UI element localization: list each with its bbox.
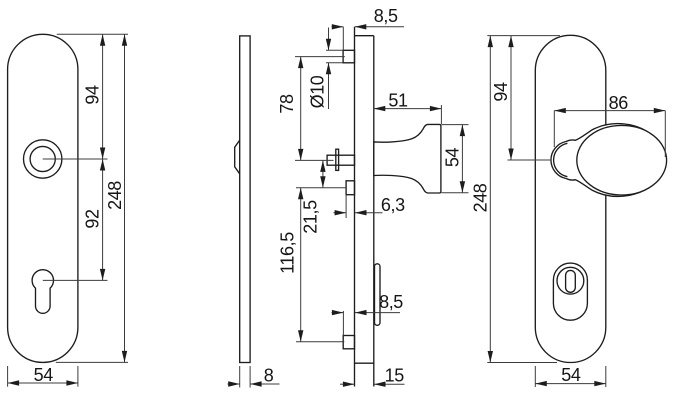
view4 dimension 248 [489, 36, 491, 363]
view4 knob neck inner arc [554, 143, 568, 176]
view3 dimension 6,3 [345, 195, 347, 218]
view3 extension line fixing element center [296, 187, 346, 189]
view3 dimension 116,5 [300, 188, 302, 342]
view1 handle hole outer ring [24, 140, 62, 178]
view1 extension line keyhole center [43, 279, 108, 281]
view3 extension line spindle center [295, 159, 334, 161]
view4 plate outline [535, 35, 606, 362]
view3 cylinder fixing element [346, 181, 354, 195]
view4 extension line top [487, 35, 560, 37]
view3 plate front line (extended for dims) [373, 36, 375, 387]
svg-text:54: 54 [443, 148, 463, 168]
svg-text:8,5: 8,5 [374, 6, 398, 26]
svg-text:86: 86 [609, 93, 629, 113]
view4 knob outer silhouette [551, 124, 665, 197]
svg-text:116,5: 116,5 [277, 232, 297, 274]
svg-text:Ø10: Ø10 [308, 75, 328, 108]
svg-text:248: 248 [105, 181, 125, 210]
svg-text:15: 15 [385, 366, 405, 386]
view1 dimension 94 [102, 34, 104, 159]
view1 handle hole inner circle [30, 146, 55, 171]
view3 dimension diameter 10 [326, 49, 343, 51]
view4 cylinder keyway slot [566, 270, 576, 292]
svg-text:21,5: 21,5 [301, 200, 321, 234]
svg-text:6,3: 6,3 [381, 195, 405, 215]
view3 extension line lower screw center [296, 341, 344, 343]
view4 knob head front face ellipse [577, 125, 667, 195]
view4 extension line knob center [508, 159, 552, 161]
view4 dimension 94 [510, 36, 512, 160]
view4 dimension 54 [534, 366, 536, 387]
svg-text:78: 78 [277, 94, 297, 114]
view3 top fixing screw [343, 50, 354, 63]
svg-text:94: 94 [82, 85, 102, 105]
view3 extension line top screw center [295, 56, 345, 58]
svg-text:92: 92 [82, 209, 102, 229]
view3 dimension 78 [300, 57, 302, 161]
view4 cylinder circle [557, 267, 584, 294]
view1 plate outline [8, 34, 78, 362]
view1 euro profile keyhole [32, 270, 53, 314]
svg-text:8,5: 8,5 [379, 292, 403, 312]
view3 plate back line (extended for dims) [354, 27, 356, 387]
view3 plate bottom edge [355, 362, 374, 364]
view3 dimension 8,5 top [342, 27, 344, 51]
view3 dimension 15 [340, 383, 354, 385]
view1 dimension 54 [7, 366, 9, 387]
svg-text:94: 94 [491, 82, 511, 102]
view1 extension line bottom [56, 361, 128, 363]
view2 side plate outline [240, 36, 250, 363]
view4 cylinder protection oval [553, 263, 587, 320]
svg-text:248: 248 [471, 183, 491, 212]
view2 dimension 8 [239, 366, 241, 388]
svg-text:8: 8 [264, 366, 274, 386]
svg-text:51: 51 [388, 90, 408, 110]
view3 spindle washer disc [336, 149, 339, 170]
view1 dimension 248 [124, 34, 126, 362]
view3 dimension 8,5 lower [342, 311, 344, 336]
view3 dimension 21,5 [322, 160, 324, 187]
svg-text:54: 54 [34, 365, 54, 385]
view4 extension line bottom [487, 362, 557, 364]
view4 dimension 86 [553, 111, 555, 147]
view3 cylinder cover strip [375, 264, 381, 326]
view1 extension line handle center [43, 158, 108, 160]
view3 lower fixing screw [343, 336, 354, 349]
view3 knob profile [374, 124, 441, 193]
view3 dimension 54 knob [442, 124, 469, 126]
view1 extension line top [57, 33, 128, 35]
view3 plate top edge [355, 35, 374, 37]
view3 spindle shaft [327, 155, 354, 165]
svg-text:54: 54 [561, 365, 581, 385]
view2 handle collar bump [235, 140, 240, 174]
view3 dimension 51 [440, 105, 442, 124]
view1 dimension 92 [102, 159, 104, 280]
